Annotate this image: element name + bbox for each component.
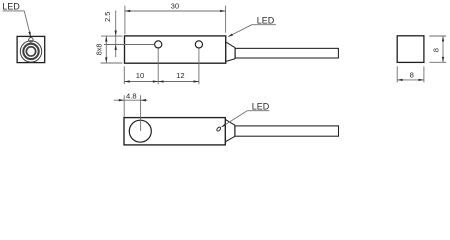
svg-text:LED: LED bbox=[257, 15, 275, 25]
svg-text:4.8: 4.8 bbox=[126, 91, 137, 100]
svg-text:LED: LED bbox=[2, 2, 20, 12]
svg-text:2.5: 2.5 bbox=[103, 12, 112, 22]
svg-text:LED: LED bbox=[252, 101, 270, 111]
svg-text:10: 10 bbox=[136, 71, 144, 80]
svg-text:8x8: 8x8 bbox=[95, 44, 104, 56]
svg-text:8: 8 bbox=[431, 48, 440, 52]
svg-text:8: 8 bbox=[410, 71, 414, 80]
svg-text:12: 12 bbox=[176, 71, 184, 80]
svg-text:30: 30 bbox=[171, 1, 179, 10]
